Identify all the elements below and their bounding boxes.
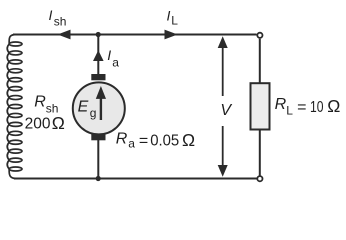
wire right bottom	[259, 130, 261, 176]
svg-text:RL=10Ω: RL=10Ω	[275, 96, 341, 118]
voltage arrow V upper segment	[218, 36, 228, 96]
svg-text:Ia: Ia	[107, 47, 119, 70]
brush top	[91, 74, 105, 80]
wire right top	[259, 39, 261, 83]
svg-text:200Ω: 200Ω	[25, 113, 65, 133]
terminal bottom	[257, 176, 262, 181]
svg-text:V: V	[220, 102, 232, 119]
svg-text:Ra=0.05Ω: Ra=0.05Ω	[116, 130, 195, 151]
generator armature circle	[73, 82, 125, 134]
inductor R_sh shunt field coil	[7, 35, 22, 179]
resistor RL	[251, 83, 270, 129]
node junction dot top	[96, 32, 101, 37]
wire top conductor	[13, 34, 257, 36]
current arrow Ish	[58, 30, 71, 40]
svg-text:Ish: Ish	[49, 7, 67, 28]
current arrow IL	[165, 30, 178, 40]
node junction dot bottom	[96, 176, 101, 181]
svg-text:IL: IL	[167, 7, 179, 27]
voltage arrow V lower segment	[218, 126, 228, 177]
current arrow Ia	[93, 50, 104, 61]
svg-text:Rsh: Rsh	[34, 94, 58, 116]
brush bottom	[91, 134, 105, 140]
terminal top	[257, 33, 262, 38]
wire bottom conductor	[14, 178, 257, 180]
emf arrow Eg	[96, 86, 106, 120]
wire armature branch bottom	[97, 140, 99, 179]
wire armature branch top	[97, 35, 99, 76]
